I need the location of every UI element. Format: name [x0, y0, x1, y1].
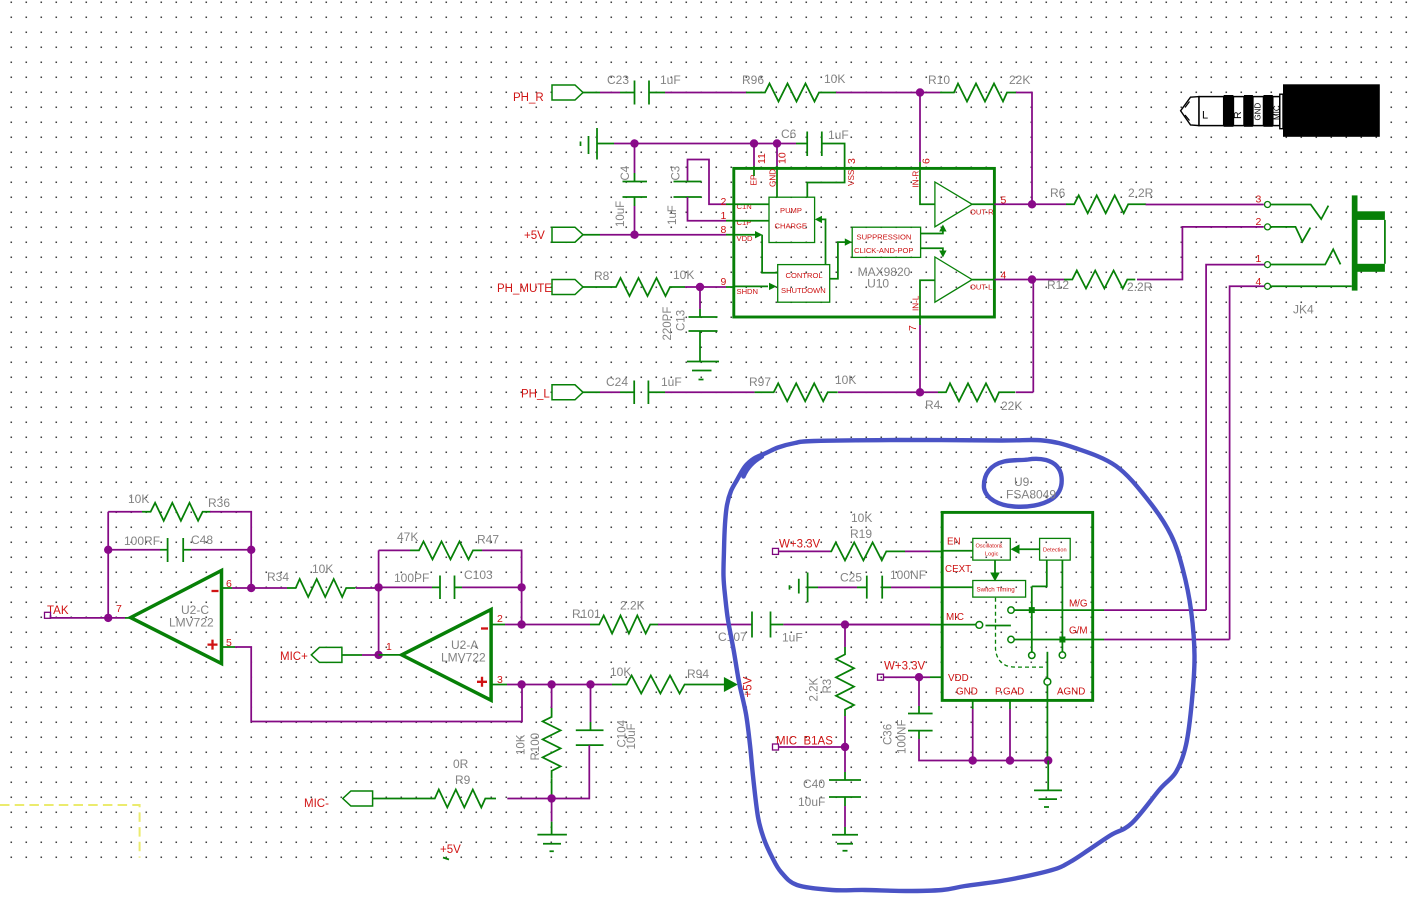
- svg-text:R: R: [1232, 111, 1244, 119]
- svg-text:PH_R: PH_R: [513, 92, 544, 104]
- svg-text:C3: C3: [671, 166, 683, 181]
- svg-text:1: 1: [386, 641, 392, 653]
- svg-text:47K: 47K: [397, 530, 418, 544]
- svg-text:1uF: 1uF: [782, 631, 803, 645]
- svg-text:C1N: C1N: [737, 202, 752, 211]
- svg-text:JK4: JK4: [1293, 303, 1314, 317]
- svg-text:R34: R34: [267, 570, 289, 584]
- svg-text:FSA8049: FSA8049: [1006, 488, 1056, 502]
- svg-text:VDD: VDD: [948, 673, 969, 684]
- svg-text:IN-L: IN-L: [911, 295, 920, 311]
- svg-text:C36: C36: [883, 724, 895, 745]
- svg-text:C103: C103: [464, 568, 493, 582]
- svg-text:2.2R: 2.2R: [1128, 186, 1154, 200]
- svg-text:C6: C6: [781, 127, 797, 141]
- svg-text:MIC-: MIC-: [304, 798, 329, 810]
- svg-text:R3: R3: [822, 679, 834, 694]
- svg-text:1uF: 1uF: [667, 205, 679, 225]
- svg-text:SHDN: SHDN: [737, 287, 759, 296]
- svg-text:CEXT.: CEXT.: [945, 564, 973, 575]
- svg-text:10K: 10K: [312, 562, 333, 576]
- svg-text:2: 2: [497, 613, 503, 625]
- svg-text:1: 1: [1256, 253, 1262, 265]
- svg-text:1uF: 1uF: [661, 375, 682, 389]
- svg-text:10K: 10K: [610, 665, 631, 679]
- svg-text:11: 11: [756, 153, 768, 164]
- svg-text:C23: C23: [607, 73, 629, 87]
- svg-text:10uF: 10uF: [615, 201, 627, 227]
- svg-text:100PF: 100PF: [394, 571, 429, 585]
- svg-text:+5V: +5V: [743, 676, 755, 697]
- svg-text:MIC_B1AS: MIC_B1AS: [776, 736, 833, 748]
- svg-text:10: 10: [777, 152, 789, 164]
- svg-text:10K: 10K: [835, 373, 856, 387]
- svg-text:2: 2: [721, 196, 727, 208]
- svg-text:Logic: Logic: [985, 552, 999, 558]
- svg-text:CLICK-AND-POP: CLICK-AND-POP: [854, 246, 914, 255]
- svg-text:R36: R36: [208, 496, 230, 510]
- svg-text:R96: R96: [742, 73, 764, 87]
- svg-text:L: L: [1202, 110, 1208, 122]
- svg-text:MIC: MIC: [946, 612, 964, 623]
- svg-text:R6: R6: [1050, 186, 1066, 200]
- svg-text:LMV722: LMV722: [169, 616, 214, 630]
- svg-text:9: 9: [721, 276, 727, 288]
- svg-text:0R: 0R: [453, 757, 469, 771]
- svg-text:6: 6: [921, 158, 933, 164]
- svg-text:+5V: +5V: [524, 230, 545, 242]
- svg-text:7: 7: [907, 325, 919, 331]
- svg-text:1uF: 1uF: [828, 128, 849, 142]
- svg-text:7: 7: [116, 603, 122, 615]
- svg-text:10K: 10K: [851, 511, 872, 525]
- svg-text:2.2K: 2.2K: [620, 599, 645, 613]
- svg-text:R101: R101: [572, 607, 601, 621]
- svg-text:2.2K: 2.2K: [809, 678, 821, 702]
- svg-text:OUT-R: OUT-R: [970, 208, 994, 217]
- svg-text:C48: C48: [191, 533, 213, 547]
- svg-text:22K: 22K: [1009, 73, 1030, 87]
- svg-text:8: 8: [721, 224, 727, 236]
- svg-text:C24: C24: [606, 375, 628, 389]
- svg-text:C4: C4: [620, 165, 632, 180]
- svg-text:2: 2: [1256, 216, 1262, 228]
- svg-text:AGND: AGND: [1057, 687, 1085, 698]
- svg-text:SHUTDOWN: SHUTDOWN: [781, 286, 826, 295]
- svg-text:R4: R4: [925, 398, 941, 412]
- svg-text:Switch Timing: Switch Timing: [977, 587, 1016, 594]
- svg-text:PH_L: PH_L: [521, 389, 550, 401]
- svg-text:PUMP: PUMP: [780, 206, 802, 215]
- svg-text:OUT-L: OUT-L: [970, 283, 992, 292]
- svg-text:MIC+: MIC+: [280, 651, 308, 663]
- svg-text:R8: R8: [594, 269, 610, 283]
- svg-text:M/G: M/G: [1069, 599, 1088, 610]
- svg-text:1: 1: [721, 210, 727, 222]
- svg-text:100NF: 100NF: [897, 719, 909, 754]
- svg-text:1uF: 1uF: [660, 73, 681, 87]
- svg-text:R9: R9: [455, 773, 471, 787]
- svg-text:220PF: 220PF: [662, 307, 674, 341]
- svg-text:10K: 10K: [824, 72, 845, 86]
- svg-text:IN-R: IN-R: [911, 171, 920, 188]
- svg-text:10uF: 10uF: [626, 723, 638, 749]
- svg-text:R100: R100: [530, 733, 542, 761]
- svg-text:SUPPRESSION: SUPPRESSION: [857, 233, 912, 242]
- svg-text:10K: 10K: [128, 492, 149, 506]
- svg-text:GND: GND: [956, 687, 978, 698]
- svg-text:EN: EN: [947, 537, 961, 548]
- svg-text:2.2R: 2.2R: [1127, 280, 1153, 294]
- svg-text:22K: 22K: [1001, 399, 1022, 413]
- svg-text:R47: R47: [477, 533, 499, 547]
- svg-text:CONTROL: CONTROL: [786, 271, 823, 280]
- svg-text:10uF: 10uF: [798, 795, 825, 809]
- svg-text:LMV722: LMV722: [441, 651, 486, 665]
- svg-text:G/M: G/M: [1069, 626, 1088, 637]
- svg-text:R97: R97: [749, 375, 771, 389]
- svg-text:GND: GND: [1254, 103, 1263, 121]
- svg-text:3: 3: [1256, 194, 1262, 206]
- svg-text:C25: C25: [840, 571, 862, 585]
- svg-text:100RF: 100RF: [124, 534, 160, 548]
- svg-text:P.GAD: P.GAD: [995, 687, 1024, 698]
- svg-text:R19: R19: [850, 527, 872, 541]
- svg-text:R12: R12: [1047, 278, 1069, 292]
- svg-text:CHARGE: CHARGE: [775, 222, 808, 231]
- svg-text:W+3.3V: W+3.3V: [779, 539, 821, 551]
- svg-text:10K: 10K: [516, 734, 528, 755]
- svg-text:10K: 10K: [673, 268, 694, 282]
- svg-text:3: 3: [846, 158, 858, 164]
- svg-text:+5V: +5V: [440, 844, 461, 856]
- svg-text:VSS: VSS: [847, 169, 856, 186]
- svg-text:100NF: 100NF: [890, 568, 926, 582]
- svg-text:Detection: Detection: [1043, 548, 1067, 554]
- svg-text:PH_MUTE: PH_MUTE: [497, 283, 552, 295]
- svg-text:R10: R10: [928, 73, 950, 87]
- svg-text:Oscillator&: Oscillator&: [976, 544, 1003, 550]
- svg-text:C40: C40: [803, 777, 825, 791]
- svg-text:W+3.3V: W+3.3V: [884, 661, 926, 673]
- svg-text:C1P: C1P: [737, 218, 752, 227]
- svg-text:R94: R94: [687, 667, 709, 681]
- svg-text:U10: U10: [867, 277, 889, 291]
- svg-text:C13: C13: [676, 310, 688, 331]
